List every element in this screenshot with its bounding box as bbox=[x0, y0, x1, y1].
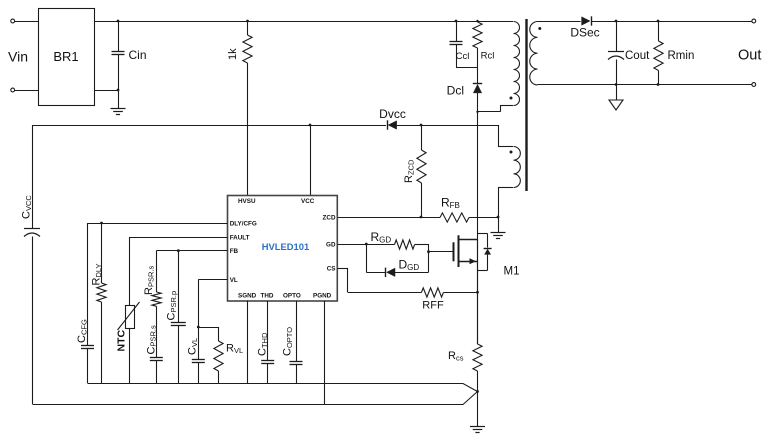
svg-text:Dcl: Dcl bbox=[447, 84, 464, 98]
svg-text:FAULT: FAULT bbox=[230, 234, 250, 241]
svg-text:Rcl: Rcl bbox=[481, 51, 495, 62]
svg-text:HVLED101: HVLED101 bbox=[262, 241, 309, 252]
svg-text:Cin: Cin bbox=[129, 48, 147, 62]
svg-text:GD: GD bbox=[326, 241, 336, 248]
svg-text:DLY/CFG: DLY/CFG bbox=[230, 220, 257, 227]
svg-text:ZCD: ZCD bbox=[323, 214, 336, 221]
svg-text:CS: CS bbox=[327, 265, 336, 272]
svg-text:NTC: NTC bbox=[116, 330, 128, 352]
svg-text:VCC: VCC bbox=[301, 198, 315, 205]
svg-text:VL: VL bbox=[230, 277, 238, 284]
svg-text:PGND: PGND bbox=[313, 293, 332, 300]
svg-text:1k: 1k bbox=[227, 48, 239, 60]
svg-text:OPTO: OPTO bbox=[283, 293, 301, 300]
svg-text:HVSU: HVSU bbox=[238, 198, 256, 205]
svg-text:Cout: Cout bbox=[625, 50, 650, 62]
svg-text:Dvcc: Dvcc bbox=[379, 107, 406, 121]
svg-text:RFF: RFF bbox=[422, 300, 444, 312]
svg-text:SGND: SGND bbox=[238, 293, 257, 300]
svg-text:FB: FB bbox=[230, 248, 239, 255]
svg-text:DSec: DSec bbox=[570, 26, 599, 40]
svg-text:M1: M1 bbox=[504, 266, 520, 278]
svg-text:Vin: Vin bbox=[8, 49, 28, 65]
svg-text:Out: Out bbox=[738, 48, 761, 64]
svg-text:THD: THD bbox=[261, 293, 274, 300]
svg-text:Ccl: Ccl bbox=[456, 51, 470, 62]
svg-text:BR1: BR1 bbox=[53, 49, 78, 64]
svg-text:Rmin: Rmin bbox=[668, 50, 695, 62]
